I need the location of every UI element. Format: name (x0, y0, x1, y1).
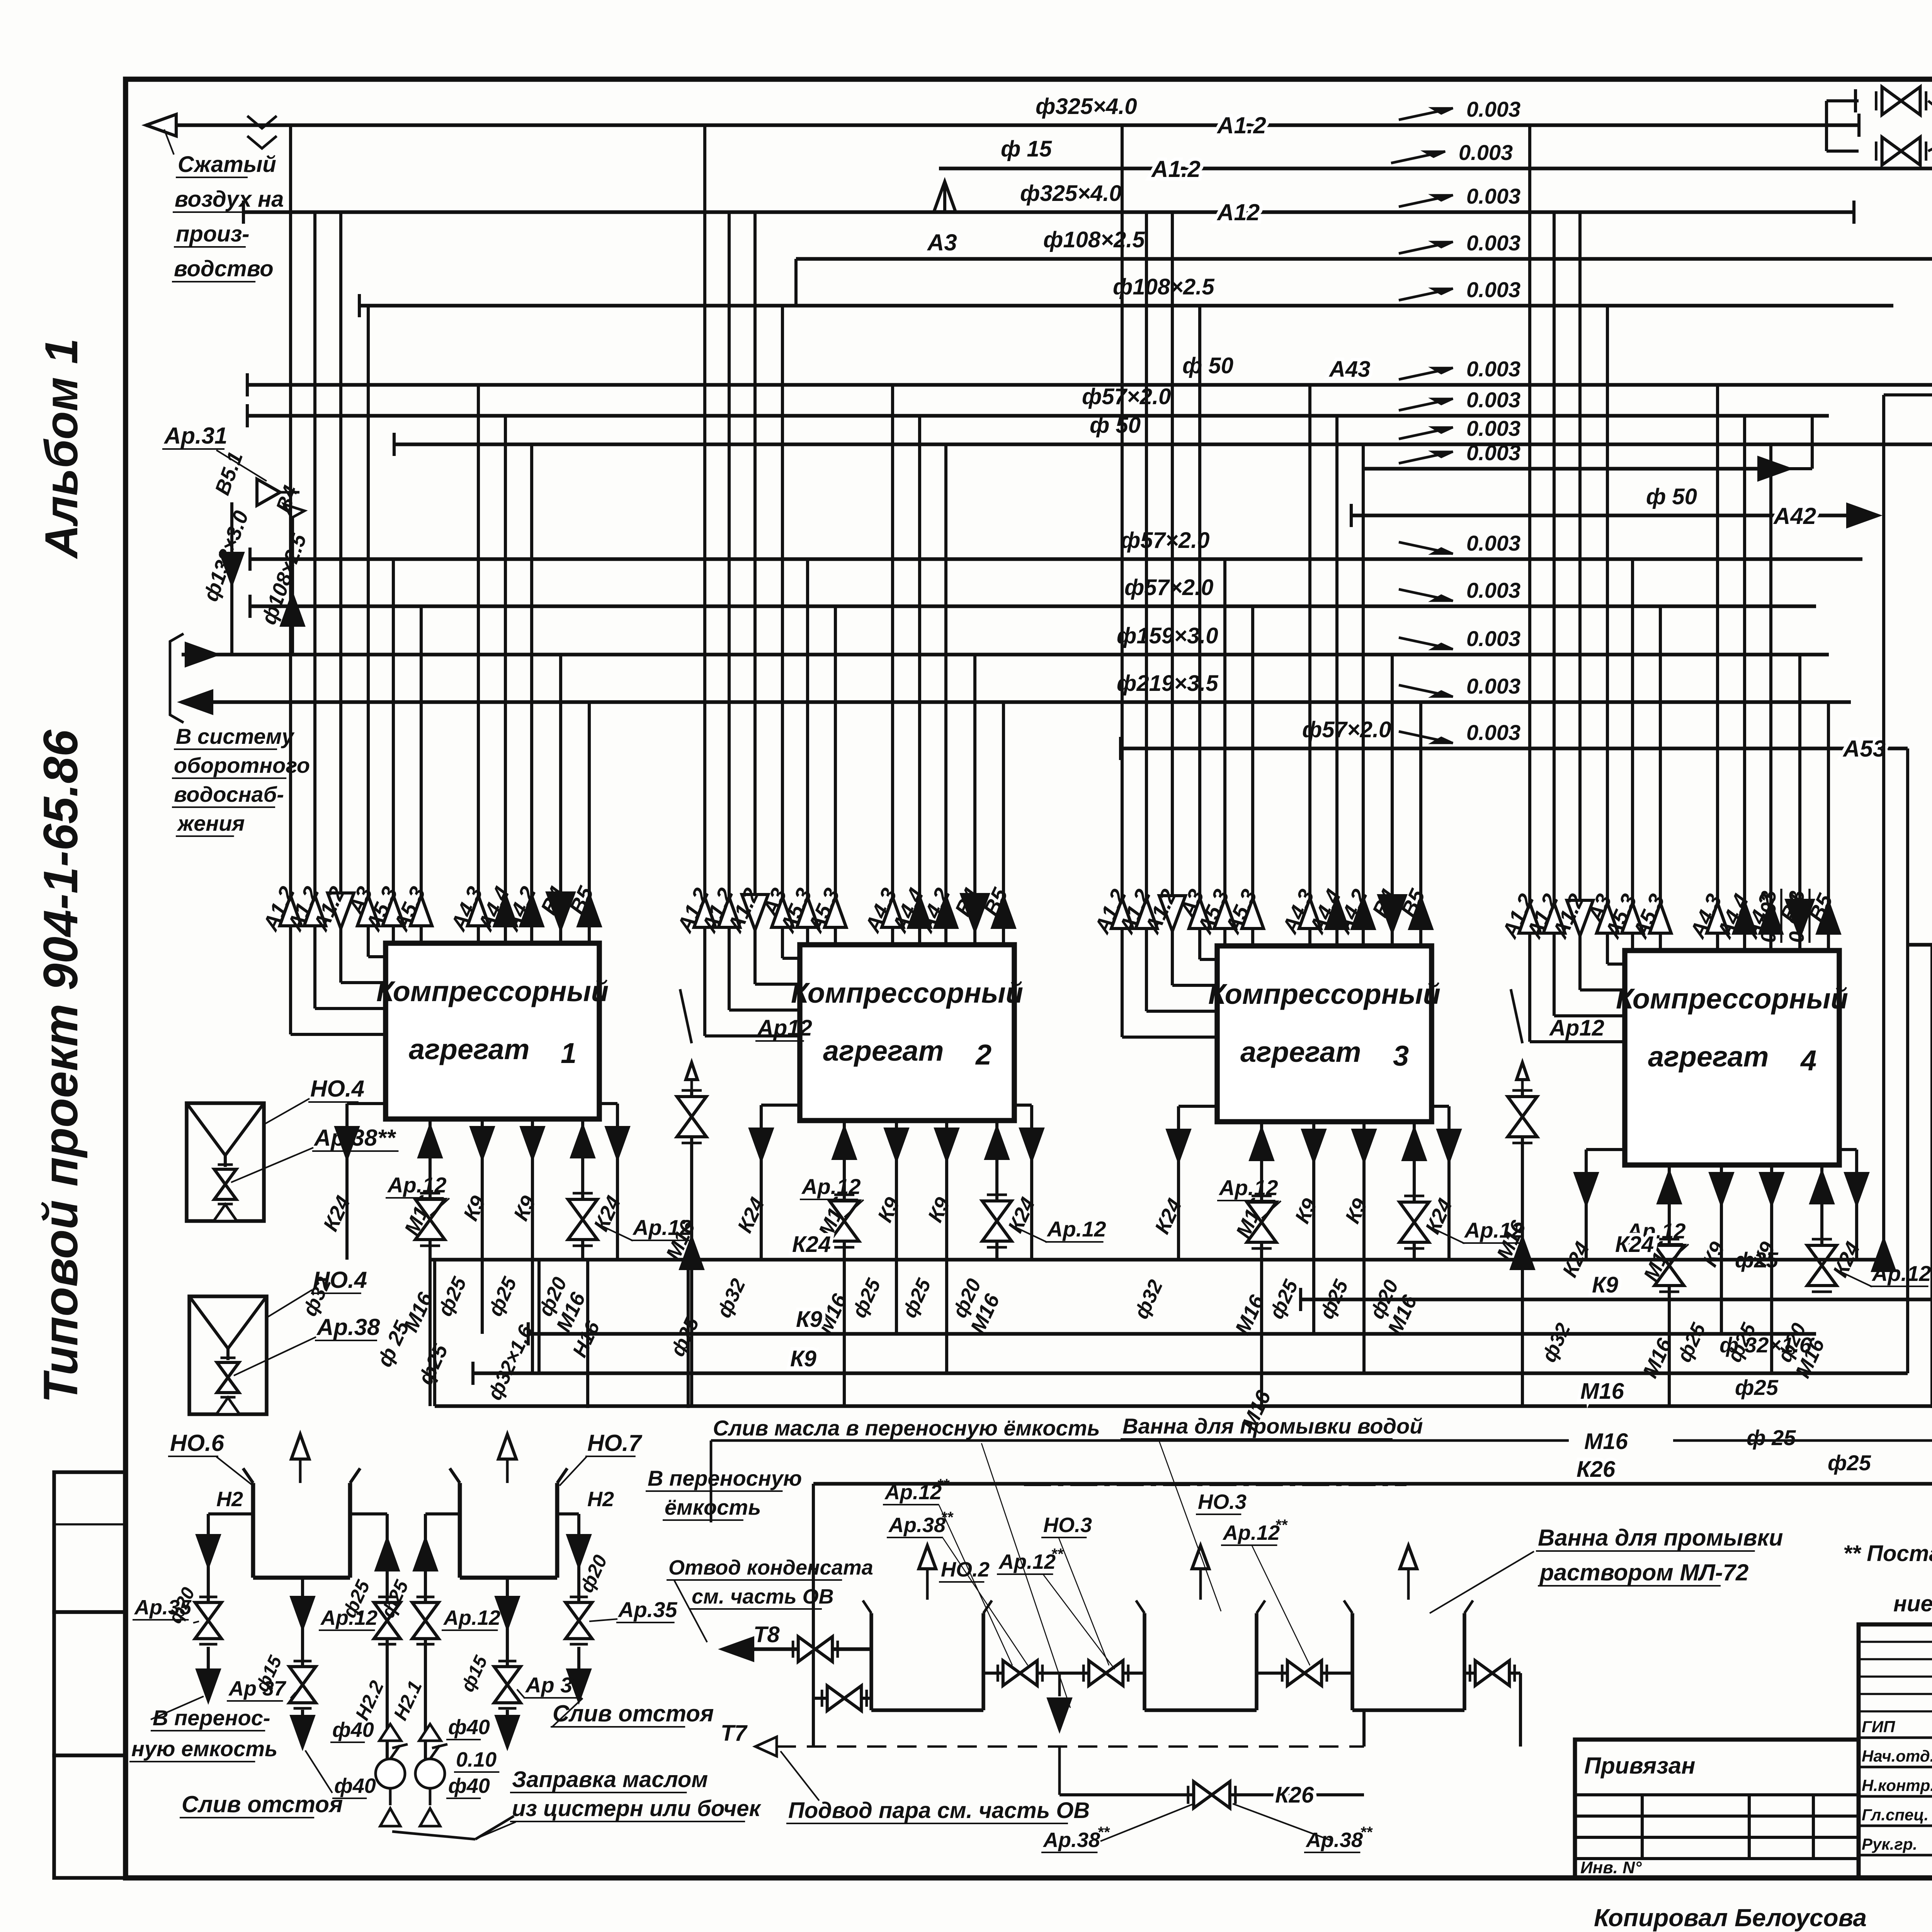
wire А5.3 bus 2 (250, 604, 1816, 608)
label riser А3 unit 3 (1175, 885, 1209, 921)
arrow К24 riser (1873, 1240, 1895, 1270)
svg-text:НО.3: НО.3 (1198, 1490, 1247, 1514)
arrow pump 1 (379, 1724, 401, 1741)
arrow drop К9 unit 4 (1761, 1173, 1782, 1204)
wire riser А5.3 unit 2 (806, 559, 809, 945)
wire drop К9 unit 2 (895, 1121, 898, 1334)
left attachment column tick (54, 1523, 126, 1525)
arrow drop К9 unit 3 (1353, 1130, 1375, 1160)
svg-text:0.003: 0.003 (1466, 720, 1520, 745)
label ф32 unit 3 (1130, 1276, 1167, 1322)
label riser А4.2 unit 2 (913, 884, 955, 937)
svg-text:0.003: 0.003 (1466, 626, 1520, 651)
svg-text:0.003: 0.003 (1466, 416, 1520, 440)
label В переносную (646, 1466, 802, 1491)
valve bath3 right (1470, 1661, 1515, 1686)
wire drop aux unit 4 (1820, 1165, 1823, 1260)
label В system line4 (176, 811, 245, 836)
label riser А1.2 unit 3 (1139, 885, 1181, 938)
label ф108x2.5 second (1113, 274, 1214, 299)
slope mark А4.3 (1399, 357, 1520, 381)
label Ар.38 bath1 (1041, 1824, 1111, 1852)
wire riser 5000 (1930, 945, 1932, 1408)
wire А5.3 pit line (1908, 943, 1932, 947)
wire drop aux unit 1 (581, 1119, 584, 1260)
label Инв N (1580, 1858, 1642, 1877)
label ф25 к26 (1828, 1451, 1871, 1475)
wire riser А4.4 unit 1 (504, 416, 507, 943)
arrow riser А4.3 unit 1 (468, 896, 489, 926)
arrow Н2 left down (197, 1536, 219, 1566)
wire riser А1.2 unit 4 (1554, 212, 1625, 1016)
label Ар 37 1 (227, 1677, 287, 1701)
wire drop К9 unit 4 (1770, 1165, 1773, 1373)
wire riser А5.3 unit 3 (1251, 606, 1254, 946)
svg-text:Сжатый: Сжатый (178, 152, 276, 177)
arrow А1.2 left end (146, 114, 176, 136)
wire К24 right elbow unit 4 (1839, 1150, 1857, 1260)
svg-text:Типовой проект 904-1-65.86: Типовой проект 904-1-65.86 (34, 729, 88, 1403)
slope mark В4 (1399, 626, 1520, 651)
wire riser А4.2 unit 3 (1362, 444, 1365, 946)
bath НО.2 (863, 1600, 992, 1710)
label Ар.38 bath2 (1304, 1824, 1373, 1852)
wire А53 elbow right (1906, 748, 1909, 945)
svg-text:ф25: ф25 (1735, 1375, 1779, 1400)
svg-text:Ар.12: Ар.12 (443, 1606, 500, 1629)
label riser А1.2 unit 3 (1114, 885, 1155, 938)
label Рук.гр. (1862, 1832, 1932, 1854)
wavy control stub (1511, 989, 1528, 1090)
svg-text:0.003: 0.003 (1466, 388, 1520, 412)
arrow В5 left (182, 691, 212, 713)
svg-text:3: 3 (1393, 1040, 1409, 1072)
wire riser А4.4 unit 4 (1743, 416, 1746, 951)
label К26 bus (1577, 1457, 1616, 1482)
label Ар.12 b3 (1221, 1517, 1288, 1545)
svg-text:0.003: 0.003 (1466, 531, 1520, 555)
label М16 under valve unit 2 (966, 1290, 1004, 1337)
wire br1213 elbow (1789, 416, 1812, 469)
svg-text:А1.2: А1.2 (1216, 112, 1266, 138)
arrow riser А3 unit 1 (357, 896, 379, 926)
leader НО.6 (216, 1457, 253, 1486)
label М16 under valve unit 1 (552, 1289, 590, 1335)
label Н2.2 (351, 1677, 388, 1724)
arrow riser А1.2 unit 3 (1136, 898, 1157, 929)
label Н2.1 (389, 1677, 426, 1723)
svg-text:В систему: В систему (176, 724, 295, 748)
label riser А1.2 unit 2 (696, 884, 738, 937)
leader Слив масла (981, 1443, 1070, 1708)
svg-text:Ар.31: Ар.31 (163, 423, 227, 449)
tank НО.7 (450, 1468, 567, 1578)
label note line2 (1893, 1591, 1932, 1616)
arrow drop up unit 1 x115 (419, 1127, 441, 1157)
arrow up into ф15 line (934, 182, 956, 212)
wire А4.2 bus (394, 442, 1932, 446)
arrow М16 standalone (1512, 1238, 1533, 1269)
label drop К24 unit 4 (1828, 1238, 1865, 1281)
arrow center drain 2b (497, 1716, 518, 1747)
wire К24 left elbow unit 4 (1586, 1150, 1625, 1260)
valve in filter (214, 1165, 236, 1204)
wire В5 bus (182, 700, 1851, 704)
label ф20 unit 4 (1773, 1320, 1810, 1366)
label riser А4.3 unit 2 (860, 884, 901, 937)
valve Ар.38 lower (1876, 137, 1926, 165)
wire А3 branch left riser (794, 259, 798, 306)
svg-text:Ар.12: Ар.12 (998, 1550, 1056, 1573)
label ф40 2 (446, 1716, 490, 1740)
arrow riser А5.3 unit 3 (1242, 898, 1264, 929)
wire riser А4.3 unit 1 (477, 385, 480, 943)
label Нач.отд. (1862, 1744, 1932, 1766)
svg-text:0.003: 0.003 (1466, 184, 1520, 208)
annex table (1575, 1740, 1859, 1878)
arrow riser А4.2 unit 4 (1760, 903, 1782, 933)
label Ар.31 (162, 423, 227, 449)
label Н2 left (216, 1488, 243, 1511)
compressor unit box 1 (386, 943, 599, 1119)
label А1.2 on bus (1216, 112, 1266, 138)
svg-text:Ванна для промывки водой: Ванна для промывки водой (1122, 1414, 1423, 1438)
label Ар.12 under unit 2 (800, 1174, 864, 1217)
label riser А1.2 unit 3 (1089, 885, 1131, 938)
wire К9 bus 1 (528, 1322, 1816, 1345)
svg-text:ф57×2.0: ф57×2.0 (1082, 384, 1171, 409)
slope mark А3 bus (1399, 277, 1520, 302)
slope mark А1.2 (1399, 97, 1520, 121)
label ф32 unit 4 (1537, 1320, 1575, 1366)
label riser А5.3 unit 2 (775, 884, 816, 937)
svg-text:0.003: 0.003 (1466, 674, 1520, 698)
label ф40 4 (446, 1774, 490, 1798)
label М16 wavy (1584, 1429, 1628, 1454)
wire А4.3 left tick (246, 373, 249, 396)
wire В5.1 drop (230, 502, 233, 655)
arrow drop К24 unit 3 (1168, 1130, 1189, 1160)
svg-text:ф159×3.0: ф159×3.0 (1117, 623, 1218, 648)
wire drop aux unit 3 (1413, 1122, 1416, 1260)
valve Ар.12 unit 3 x115 (1247, 1196, 1276, 1248)
wire А4.3 bus (247, 383, 1932, 387)
label ф25 right3 (1747, 1425, 1796, 1450)
valve Ар.12 unit 1 x510 (568, 1193, 597, 1246)
bath НО.3 МЛ72 (1344, 1600, 1473, 1710)
leader Заправка (479, 1822, 516, 1837)
label ф57x2.0 b2 (1124, 575, 1213, 600)
label Компрессорный 2 (791, 977, 1023, 1009)
arrow vent НО.7 (498, 1434, 516, 1483)
svg-text:Ар.12: Ар.12 (1222, 1521, 1280, 1544)
label ф25 unit 2 (898, 1275, 935, 1321)
wire center drain 1 (301, 1578, 304, 1665)
svg-text:Заправка маслом: Заправка маслом (512, 1767, 708, 1792)
slope mark В5 (1399, 674, 1520, 698)
label Ар.12 right under unit 3 (1428, 1218, 1524, 1243)
filter НО.4 body (189, 1296, 267, 1414)
label В перенос line1 (151, 1706, 270, 1731)
svg-text:ф40: ф40 (448, 1774, 490, 1798)
label drop К9 unit 2 (873, 1194, 905, 1226)
svg-text:А12: А12 (1216, 199, 1260, 225)
label ф108x2.5 (1043, 227, 1145, 252)
svg-text:К24: К24 (1615, 1232, 1654, 1257)
label агрегат 1 (409, 1033, 577, 1069)
arrow drop up unit 3 x510 (1403, 1129, 1425, 1160)
slope mark А3 branch (1399, 231, 1520, 255)
wire М16 vertical (586, 1260, 589, 1408)
label riser А1.2 unit 2 (722, 884, 764, 937)
arrow drop К24 unit 1 (607, 1128, 628, 1158)
slope mark ф15 line (1391, 140, 1513, 165)
label А42 (1773, 503, 1816, 529)
label drop К24 unit 1 (589, 1192, 626, 1235)
wire riser А1.2 unit 4 (1530, 125, 1625, 1042)
label riser А5.3 unit 2 (803, 884, 844, 937)
leader Ар.38 bath2 (1233, 1804, 1333, 1841)
label riser А1.2 unit 2 (672, 884, 714, 937)
svg-text:Ар.12: Ар.12 (387, 1173, 447, 1197)
label М16 under valve unit 3 (1231, 1291, 1269, 1338)
wire ф25 vertical (433, 1260, 436, 1406)
wire А12 bus (243, 210, 1854, 214)
wire Ар.38 outlet (1928, 101, 1932, 151)
wire drop К9 unit 2 (945, 1121, 948, 1373)
svg-text:Нач.отд.: Нач.отд. (1862, 1747, 1932, 1765)
svg-text:М16: М16 (1584, 1429, 1628, 1454)
wire riser В5 unit 3 (1419, 702, 1422, 946)
label В system line3 (172, 782, 284, 807)
label К9 right (1592, 1272, 1618, 1298)
label агрегат 3 (1240, 1036, 1409, 1072)
svg-text:К24: К24 (792, 1232, 831, 1257)
svg-text:4: 4 (1800, 1044, 1816, 1077)
label Т8 (753, 1622, 780, 1647)
svg-text:Ар 37: Ар 37 (525, 1673, 585, 1697)
wire drop М16 unit 3 (1260, 1122, 1263, 1406)
wire Н2 left (208, 1514, 253, 1602)
svg-text:Альбом 1: Альбом 1 (36, 338, 87, 559)
label А53 (1842, 736, 1886, 762)
arrow in filter (214, 1204, 237, 1221)
wire А42 tick (1350, 504, 1353, 527)
left attachment column box 2 (54, 1612, 126, 1755)
label 0.003 rot 1 (1757, 889, 1781, 943)
label ф25 Н2.2 (338, 1577, 374, 1621)
wire К24 entry (1884, 393, 1932, 396)
label riser А4.3 unit 1 (446, 883, 487, 935)
wire riser А3 unit 1 (368, 306, 386, 957)
label riser А4.2 unit 1 (499, 883, 541, 935)
svg-text:Ар.35: Ар.35 (617, 1597, 677, 1622)
label агрегат 4 (1648, 1041, 1816, 1077)
label НО.2 (939, 1558, 990, 1582)
svg-text:Слив масла в переносную ёмкост: Слив масла в переносную ёмкость (713, 1416, 1100, 1440)
valve Ар.12 unit 3 x510 (1400, 1196, 1429, 1248)
label А1.2 second (1151, 156, 1201, 182)
label Ар.12 under unit 1 (386, 1173, 449, 1216)
wire К24 bus (429, 1258, 1884, 1262)
wire А3 left tick (358, 294, 361, 317)
svg-text:ф 32×1.6: ф 32×1.6 (1719, 1333, 1812, 1357)
svg-text:из цистерн или бочек: из цистерн или бочек (512, 1796, 762, 1821)
wire А4.2 left tick (393, 433, 396, 456)
arrow riser Н2.2 (376, 1540, 398, 1570)
valve bath12 a (998, 1661, 1043, 1686)
svg-text:Ар.12: Ар.12 (320, 1606, 378, 1629)
svg-text:Ар.35: Ар.35 (134, 1596, 192, 1619)
label riser А5.3 unit 4 (1600, 890, 1641, 942)
wire center drain 2 (506, 1578, 509, 1665)
svg-text:водство: водство (174, 256, 274, 281)
label riser А3 unit 2 (757, 884, 791, 920)
valve Ар.37 2 (494, 1661, 520, 1708)
wire riser А3 unit 4 (1607, 306, 1625, 964)
wire А5.3 bus 1 (250, 557, 1862, 561)
svg-text:ф57×2.0: ф57×2.0 (1302, 717, 1391, 742)
arrow riser А4.3 unit 2 (882, 897, 903, 927)
wire riser Н2.1 (424, 1514, 427, 1759)
svg-text:Ар.12: Ар.12 (801, 1174, 861, 1199)
svg-text:0.003: 0.003 (1466, 440, 1520, 465)
arrow drop К9 unit 1 (471, 1128, 493, 1158)
label ф25 unit 3 (1315, 1276, 1353, 1323)
leader Ванна МЛ72 (1430, 1551, 1534, 1613)
wire А5.3-1 left tick (248, 548, 252, 571)
svg-text:ф 50: ф 50 (1182, 353, 1233, 378)
label Ар.12 right under unit 4 (1835, 1261, 1931, 1287)
label riser А1.2 unit 4 (1547, 890, 1589, 942)
svg-text:Компрессорный: Компрессорный (791, 977, 1023, 1009)
svg-text:Слив отстоя: Слив отстоя (182, 1791, 343, 1817)
valve Ар.12 unit 4 x115 (1655, 1239, 1684, 1292)
valve bath23 (1282, 1661, 1327, 1686)
label произ- (174, 221, 250, 247)
label Ар.35 right (616, 1597, 677, 1622)
label riser А4.4 unit 1 (473, 883, 514, 935)
svg-text:ную емкость: ную емкость (131, 1736, 277, 1761)
wire А4.4 right branch (1364, 467, 1762, 471)
svg-text:Т8: Т8 (753, 1622, 780, 1647)
label Ар.12 standalone (755, 1015, 812, 1041)
label ф25 unit 4 (1723, 1320, 1760, 1366)
slope mark А5.3-2 (1399, 578, 1520, 602)
arrow drop К24 unit 1 (336, 1128, 358, 1158)
svg-text:Ар12: Ар12 (1549, 1015, 1604, 1041)
svg-text:Ар.38**: Ар.38** (313, 1125, 396, 1151)
label riser А4.2 unit 4 (1738, 890, 1780, 942)
slope mark br1213 (1399, 440, 1520, 465)
svg-text:**: ** (1360, 1824, 1373, 1841)
label Слив масла text (711, 1416, 1100, 1441)
wire riser 4937 lower (1906, 945, 1909, 1373)
svg-text:0.003: 0.003 (1757, 891, 1780, 943)
wire riser А4.3 unit 2 (891, 385, 894, 945)
label riser А4.4 unit 4 (1712, 890, 1753, 942)
label ф133x3.0 (199, 508, 253, 604)
arrow drop К9 unit 2 (936, 1129, 957, 1159)
bracket В4 В5 (170, 634, 184, 723)
label ф32 unit 2 (713, 1275, 750, 1321)
label ф32x1.6 vert (483, 1321, 537, 1404)
wire riser А5.3 unit 3 (1223, 559, 1226, 946)
wire branch to Ар.38 (1827, 89, 1859, 151)
label riser В5 unit 1 (565, 883, 599, 918)
svg-text:**: ** (937, 1476, 950, 1493)
label ф50 (1182, 353, 1233, 378)
wire К24 left elbow unit 3 (1179, 1106, 1217, 1260)
label ф32 unit 1 (298, 1274, 335, 1320)
wire riser А1.2 unit 2 (755, 212, 800, 984)
wire К26 bath line (1060, 1747, 1364, 1795)
arrow riser В5 unit 2 (993, 897, 1014, 927)
label ф57x2.0 br (1302, 717, 1391, 742)
compressor unit box 2 (800, 945, 1014, 1121)
leader Подвод пара (781, 1751, 819, 1801)
label riser А5.3 unit 4 (1628, 890, 1669, 942)
svg-text:воздух на: воздух на (175, 187, 284, 212)
label М16 under valve unit 4 (1791, 1335, 1829, 1381)
label riser А3 unit 1 (343, 883, 377, 918)
svg-text:Отвод конденсата: Отвод конденсата (668, 1556, 873, 1579)
arrow riser А1.2 unit 4 (1543, 903, 1565, 933)
label К9 bus 2 (790, 1346, 816, 1371)
label 0.10 (454, 1748, 499, 1772)
label ф25 vert (414, 1340, 452, 1388)
wire riser А1.2 unit 1 (291, 125, 386, 1034)
wavy pump collect (392, 1816, 514, 1839)
label ф25 Н2.1 (377, 1577, 413, 1621)
valve Ар.31 check (257, 479, 304, 518)
break mark on А1.2 (247, 116, 277, 148)
svg-text:М16: М16 (1580, 1379, 1624, 1404)
arrow riser В4 unit 1 (548, 893, 574, 929)
wire riser А3 unit 3 (1200, 306, 1217, 959)
label ф20 right (575, 1551, 611, 1595)
svg-text:Ар12: Ар12 (757, 1015, 812, 1041)
svg-text:НО.6: НО.6 (170, 1430, 224, 1456)
wire riser А5.3 unit 1 (420, 606, 423, 943)
leader Ванна водой (1159, 1441, 1221, 1611)
arrow riser А1.2 unit 2 (694, 897, 716, 927)
leader Ар.31 (216, 450, 267, 481)
arrow left drain (197, 1670, 219, 1700)
label НО.4 (311, 1267, 367, 1293)
label М16 under valve unit 2 (813, 1290, 852, 1337)
label Ар.12 standalone (1548, 1015, 1604, 1041)
wire А12 left tick (242, 201, 245, 224)
arrow bath vent (1400, 1546, 1417, 1600)
label drop К24 unit 3 (1421, 1195, 1457, 1238)
wire Н2 right (557, 1514, 579, 1602)
valve bath12 b (1083, 1661, 1128, 1686)
svg-text:Компрессорный: Компрессорный (1616, 983, 1848, 1015)
svg-text:Привязан: Привязан (1584, 1753, 1695, 1779)
wire К26 left elbow (812, 1484, 815, 1698)
label Ванна промывки водой (1121, 1414, 1423, 1439)
label riser А4.4 unit 2 (887, 884, 929, 937)
arrow center drain 2 (497, 1597, 518, 1628)
wire К9 bus 2 (473, 1362, 1908, 1385)
wire А42 right branch (1351, 514, 1851, 517)
wire riser А1.2 unit 2 (705, 125, 800, 1036)
arrow riser А5.3 unit 4 (1650, 903, 1671, 933)
arrow riser В4 unit 3 (1379, 896, 1405, 931)
svg-text:** Поставляется с нестандартиз: ** Поставляется с нестандартизированным … (1843, 1541, 1932, 1566)
tank НО.6 (243, 1468, 360, 1578)
